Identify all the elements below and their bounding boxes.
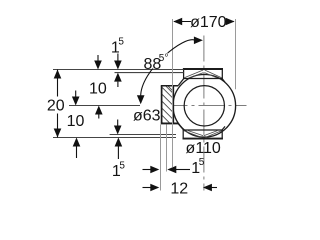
svg-text:5: 5 xyxy=(118,37,124,48)
svg-text:20: 20 xyxy=(47,97,65,114)
svg-text:12: 12 xyxy=(170,181,188,198)
svg-text:5: 5 xyxy=(119,160,125,171)
svg-text:10: 10 xyxy=(89,81,107,98)
svg-text:ø170: ø170 xyxy=(190,14,227,31)
svg-text:ø63: ø63 xyxy=(133,108,161,125)
svg-text:5: 5 xyxy=(199,157,205,168)
svg-text:ø110: ø110 xyxy=(186,140,221,157)
svg-text:5°: 5° xyxy=(159,53,169,64)
svg-text:10: 10 xyxy=(67,113,85,130)
